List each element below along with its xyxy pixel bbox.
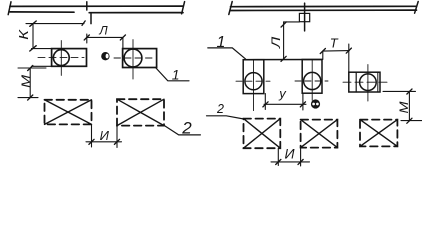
foundation rect 1 left figure (dashed with cross)	[45, 100, 92, 125]
dimension M right bottom tick	[407, 118, 412, 123]
extension line from joint to K dimension	[26, 23, 84, 25]
block R2 horizontal centerline	[295, 80, 328, 82]
dimension I right figure left extension line	[277, 148, 279, 165]
foundation rect R1 (dashed with cross)	[244, 119, 281, 149]
left figure: beam top chord	[10, 5, 183, 7]
dimension K line	[32, 24, 34, 49]
foundation rect 1 diagonal a	[45, 100, 92, 125]
foundation rect R1 diagonal b	[244, 119, 281, 149]
foundation rect R3 (dashed with cross)	[360, 120, 397, 147]
foundation rect 2 diagonal a	[117, 99, 164, 125]
left beam left end tick	[8, 2, 11, 15]
block 2 circle	[124, 49, 142, 67]
dimension U line	[264, 103, 306, 105]
block 1 top edge extension	[32, 48, 52, 50]
block 1 circle	[53, 50, 69, 66]
block R1 vertical centerline	[253, 60, 255, 111]
right beam left end tick	[229, 2, 232, 15]
svg-text:Л: Л	[98, 24, 108, 38]
dimension M bottom extension line	[18, 97, 38, 99]
dimension L line right figure	[283, 22, 285, 59]
extension line from joint to L dimension	[284, 21, 300, 23]
dimension I right figure line	[271, 161, 310, 163]
block 1 anchor box	[52, 49, 87, 67]
leader line for label 2 left figure	[164, 125, 201, 135]
dimension L right tick	[120, 35, 125, 40]
anchor node dot left figure	[101, 52, 109, 60]
dimension L line left figure	[87, 36, 123, 38]
block R1 horizontal centerline	[236, 80, 270, 82]
block 2 vertical centerline	[132, 40, 134, 79]
svg-text:у: у	[278, 86, 287, 101]
dimension L left tick	[84, 35, 89, 40]
dimension I right tick	[114, 139, 119, 144]
svg-text:1: 1	[217, 34, 226, 51]
block R3 horizontal centerline	[343, 81, 390, 83]
dimension I right extension line	[116, 126, 118, 148]
block R3 rectangle	[349, 72, 380, 92]
dimension M line left figure	[29, 68, 31, 98]
right beam joint plate square	[299, 13, 309, 21]
block 1 horizontal centerline	[38, 57, 84, 59]
foundation rect R2 diagonal a	[301, 120, 338, 148]
dimension M right top tick	[407, 89, 412, 94]
block R2 vertical centerline	[311, 60, 313, 101]
block R3 vertical centerline	[367, 65, 369, 101]
leader line for label 1 left figure	[156, 68, 190, 81]
left beam right end tick	[182, 2, 185, 14]
slanted tick at joint extension	[82, 21, 85, 26]
block R2 rectangle	[302, 60, 322, 94]
foundation rect R2 diagonal b	[301, 120, 338, 148]
svg-text:И: И	[284, 146, 295, 162]
left beam mid joint tick	[86, 2, 88, 10]
dimension T left extension line	[322, 51, 324, 59]
dimension M right figure top extension line	[383, 90, 416, 92]
svg-text:2: 2	[181, 119, 192, 138]
foundation rect 2 left figure (dashed with cross)	[117, 99, 164, 125]
dimension I left tick	[89, 139, 94, 144]
left beam joint step connector	[90, 13, 92, 24]
foundation rect 2 diagonal b	[117, 99, 164, 125]
svg-text:1: 1	[172, 67, 180, 83]
svg-text:М: М	[19, 74, 33, 87]
right beam right end tick	[415, 2, 419, 14]
dimension K bottom tick	[30, 46, 36, 51]
foundation rect R3 diagonal a	[360, 120, 397, 147]
svg-text:2: 2	[216, 102, 224, 116]
dimension U right extension line	[302, 93, 304, 110]
leader line for label 2 right figure	[207, 116, 244, 119]
top connecting line over blocks 1-2	[243, 59, 322, 61]
dimension I right figure right extension line	[300, 148, 302, 166]
block 2 anchor box	[123, 49, 157, 68]
dimension U left extension line	[264, 94, 266, 110]
dimension I left extension line	[91, 124, 93, 147]
dimension T line	[323, 50, 349, 53]
dimension M right bottom extension line	[401, 120, 422, 122]
svg-text:Т: Т	[330, 36, 339, 51]
dimension I right right tick	[298, 159, 303, 164]
svg-text:М: М	[397, 100, 411, 113]
dimension L right extension line	[122, 37, 124, 55]
leader line for label 1 right figure	[208, 48, 246, 59]
block R3 circle	[360, 74, 377, 91]
dimension L right top tick	[281, 22, 286, 27]
dimension I right left tick	[276, 159, 281, 164]
foundation rect 1 diagonal b	[45, 100, 92, 125]
block R3 inner vertical right	[377, 72, 379, 92]
svg-text:К: К	[18, 29, 32, 40]
foundation rect R1 diagonal a	[244, 119, 281, 149]
block 1 bottom edge extension	[32, 65, 52, 67]
foundation rect R2 (dashed with cross)	[301, 120, 338, 148]
right beam joint vertical	[304, 3, 306, 31]
dimension M top tick	[28, 66, 33, 71]
left figure: beam bottom chord left segment	[10, 11, 74, 13]
dimension T right extension line / block R3 left edge upper	[348, 44, 350, 72]
dimension T right tick	[346, 48, 351, 53]
block R3 inner vertical left	[355, 72, 357, 92]
dimension L right bottom tick	[281, 56, 286, 61]
dimension L left extension stub	[86, 34, 88, 43]
svg-text:И: И	[100, 128, 110, 143]
block R1 circle	[245, 73, 262, 90]
dimension U right tick	[300, 102, 305, 107]
right figure: beam bottom chord	[231, 9, 417, 11]
right figure: beam top chord	[231, 5, 417, 7]
dimension K top tick	[30, 21, 36, 26]
anchor node dot right figure	[311, 99, 320, 108]
dimension M bottom tick	[28, 95, 33, 100]
block R2 circle	[304, 72, 321, 89]
block R1 rectangle	[243, 60, 264, 94]
dimension M top extension line	[18, 67, 46, 69]
foundation rect R3 diagonal b	[360, 120, 397, 147]
dimension T left tick	[320, 49, 325, 54]
dimension U left tick	[263, 102, 268, 107]
block 1 vertical centerline	[60, 41, 62, 76]
svg-text:Л: Л	[270, 36, 283, 49]
block 2 horizontal centerline	[114, 57, 152, 59]
dimension I line left figure	[86, 141, 122, 143]
dimension M right figure line	[408, 91, 410, 121]
left figure: beam bottom chord right segment	[89, 12, 183, 14]
